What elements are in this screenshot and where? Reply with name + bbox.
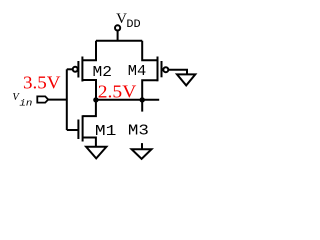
transistor M1 gate bar [77,120,79,140]
wire M3 ground stem [141,143,143,149]
svg-text:in: in [19,97,32,108]
wire M1 gate lead [67,129,79,131]
transistor M4 gate bubble [163,67,168,72]
wire M3 drain stub [141,100,143,112]
transistor M1 channel bar [82,115,84,141]
transistor M2 gate bar [77,61,79,78]
wire M1 source arm [83,138,96,147]
wire 2.5V output rail [96,99,159,101]
ground top-right triangle [177,74,195,85]
svg-text:M3: M3 [128,123,149,140]
transistor M4 channel bar [157,57,159,82]
wire M4 drain arm [142,80,157,100]
svg-text:M2: M2 [93,64,113,81]
wire M2 gate lead [67,68,73,70]
wire Vin lead [48,99,67,101]
transistor M2 gate bubble [73,67,78,72]
node junction dot right [140,97,145,102]
node VDD terminal circle [115,25,120,30]
wire VDD stem [117,31,119,41]
wire M4 gate lead to ground [168,70,187,75]
svg-text:M1: M1 [95,123,117,140]
svg-text:DD: DD [126,19,141,31]
ground under M3 [132,149,152,159]
wire M2 drain arm [82,80,96,100]
wire input gate riser [66,69,68,130]
wire M4 source drop [142,41,157,61]
port Vin input terminal [37,96,48,102]
wire top rail [96,40,142,42]
svg-text:3.5V: 3.5V [23,73,61,93]
svg-text:M4: M4 [128,63,147,80]
transistor M4 gate bar [161,61,163,77]
ground under M1 [86,147,106,159]
transistor M2 channel bar [81,57,83,82]
label Vin [12,92,32,108]
wire M1 drain arm [83,100,96,116]
label VDD [116,11,141,31]
svg-text:2.5V: 2.5V [98,82,137,102]
wire M2 source drop [82,41,96,61]
node junction dot left [93,97,98,102]
